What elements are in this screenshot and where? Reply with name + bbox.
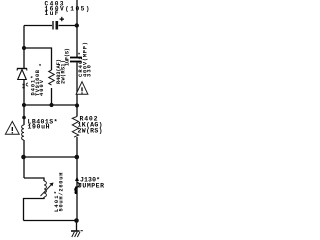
label L401 [54, 173, 65, 213]
svg-text:400V: 400V [39, 79, 45, 96]
svg-text:*: * [39, 63, 45, 66]
wire L401 bottom jog [24, 197, 45, 221]
capacitor CR402 [70, 58, 82, 62]
wire left vertical upper [23, 26, 25, 69]
svg-text:2W(RS): 2W(RS) [78, 128, 103, 135]
wire right vertical below R402 [76, 137, 78, 221]
node dot top right [75, 23, 79, 27]
wire L401 top jog [24, 178, 44, 181]
safety triangle left [5, 121, 19, 134]
svg-text:1uF: 1uF [45, 10, 59, 17]
wire right vertical top [76, 0, 78, 57]
svg-text:JUMPER: JUMPER [78, 182, 104, 189]
safety triangle right [76, 82, 88, 95]
node dot right y157 [75, 155, 80, 160]
svg-text:190uH: 190uH [28, 124, 50, 131]
node dot ground [74, 218, 79, 223]
wire bottom rail [24, 220, 77, 222]
node dot mid rail left [22, 103, 26, 107]
node dot left y117.5 [22, 116, 26, 120]
wire right vertical below C404 [76, 63, 78, 117]
resistor R403 [49, 70, 55, 85]
wire left vertical lower [23, 140, 25, 178]
node dot mid rail center [49, 103, 53, 107]
node dot mid rail right [75, 103, 79, 107]
wire branch y48 [24, 48, 52, 70]
wire top rail right segment [59, 25, 78, 27]
node dot left y157 [21, 155, 26, 160]
label R402 [78, 116, 103, 135]
label D401 [31, 63, 46, 96]
label C403 [45, 1, 90, 18]
svg-text:50uH/260uH: 50uH/260uH [59, 173, 65, 212]
diode D401 [17, 69, 27, 80]
wire left vertical mid [23, 80, 25, 125]
inductor L401 [44, 181, 46, 197]
resistor R402 [72, 117, 78, 138]
label J130 [78, 177, 104, 190]
wire rail y157 [24, 156, 78, 158]
inductor LB401S [22, 125, 24, 140]
arrow variable L401 [41, 183, 54, 197]
svg-text:1uF(S): 1uF(S) [65, 48, 71, 66]
label LB401S [28, 119, 58, 131]
wire mid rail y105 [24, 104, 77, 106]
svg-text:330: 330 [87, 65, 93, 77]
wire R403 to mid rail [51, 88, 53, 105]
capacitor C403 [53, 17, 64, 30]
label R403 [56, 48, 71, 84]
jumper J130 [75, 177, 80, 194]
node dot left y48 [22, 46, 26, 50]
ground [71, 231, 83, 237]
wire top rail left segment [24, 25, 52, 27]
node tick left wire [23, 84, 25, 89]
wire ground stub [76, 221, 78, 232]
label CR402 [78, 42, 93, 77]
